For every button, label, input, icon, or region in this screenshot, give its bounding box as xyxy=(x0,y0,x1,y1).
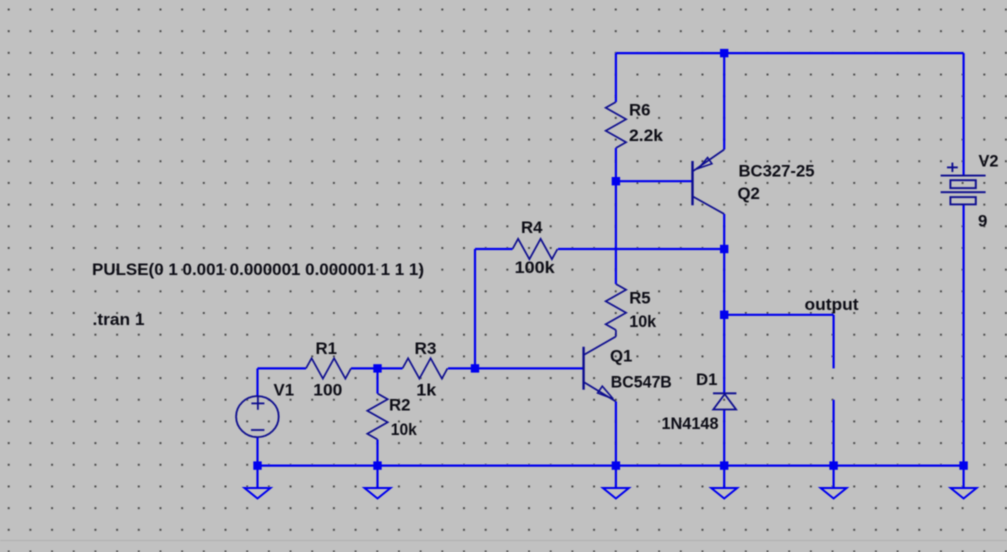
transistor Q2 (PNP BC327-25) xyxy=(693,150,725,215)
svg-text:R2: R2 xyxy=(389,396,410,415)
voltage source V1 xyxy=(236,396,279,437)
junction GND output xyxy=(829,461,837,469)
ground (D1) xyxy=(711,488,737,499)
wire V1 bottom lead xyxy=(256,437,258,466)
resistor R5 xyxy=(606,284,626,330)
wire bottom rail xyxy=(258,465,964,467)
svg-text:100k: 100k xyxy=(515,258,556,277)
svg-text:PULSE(0 1 0.001 0.000001 0.000: PULSE(0 1 0.001 0.000001 0.000001 1 1 1) xyxy=(92,260,424,279)
svg-text:2.2k: 2.2k xyxy=(629,126,664,145)
svg-text:1N4148: 1N4148 xyxy=(662,414,719,433)
wire Q2 emitter vertical xyxy=(723,53,725,149)
wire R4 left vertical xyxy=(474,249,476,368)
svg-text:R6: R6 xyxy=(629,101,650,120)
node top rail / Q2 emitter xyxy=(720,49,728,57)
svg-text:10k: 10k xyxy=(629,312,657,331)
wire top rail xyxy=(616,52,964,54)
resistor R1 xyxy=(306,358,351,378)
node R3/R4/Q1-base xyxy=(471,364,479,372)
wire ground stub x=963.6 xyxy=(962,466,964,488)
svg-text:R5: R5 xyxy=(629,289,650,308)
wire R4 left lead xyxy=(475,248,513,250)
resistor R4 xyxy=(513,239,558,259)
junction GND D1 xyxy=(720,461,728,469)
wire R3 to node xyxy=(448,367,475,369)
svg-text:R4: R4 xyxy=(521,218,543,237)
battery V2 xyxy=(941,163,986,205)
wire ground stub x=833.6 xyxy=(832,466,834,488)
wire V2 top drop xyxy=(962,53,964,176)
ground (Q1) xyxy=(603,488,629,499)
wire R4 right lead xyxy=(558,248,724,250)
svg-text:9: 9 xyxy=(978,212,987,231)
svg-text:V1: V1 xyxy=(274,381,295,400)
svg-text:output: output xyxy=(805,295,859,314)
wire output lower vertical xyxy=(832,400,834,466)
transistor Q1 (NPN BC547B) xyxy=(584,337,616,402)
junction GND Q1 xyxy=(612,461,620,469)
svg-text:Q2: Q2 xyxy=(738,184,760,203)
svg-text:R1: R1 xyxy=(316,339,337,358)
junction GND R2 xyxy=(373,461,381,469)
svg-text:BC327-25: BC327-25 xyxy=(739,162,815,181)
wire ground stub x=377.5 xyxy=(376,466,378,488)
wire Q1 emitter vertical xyxy=(615,402,617,466)
node output branch xyxy=(720,311,728,319)
svg-text:BC547B: BC547B xyxy=(611,373,672,392)
ground (V1) xyxy=(245,488,271,499)
ground (V2) xyxy=(951,488,977,499)
wire V1 to R1 xyxy=(258,367,307,369)
node R1/R2/R3 xyxy=(373,364,381,372)
svg-text:D1: D1 xyxy=(696,370,717,389)
svg-text:V2: V2 xyxy=(979,152,999,171)
wire R6 node to R5 xyxy=(615,181,617,284)
wire Q2 collector vertical xyxy=(723,214,725,393)
diode D1 (1N4148) xyxy=(713,393,736,409)
wire ground stub x=724.2 xyxy=(723,466,725,488)
wire output horizontal xyxy=(724,314,833,316)
node R4 / Q2 collector xyxy=(720,245,728,253)
wire node to Q1 base xyxy=(475,367,584,369)
svg-text:10k: 10k xyxy=(391,420,418,439)
ground (output) xyxy=(821,488,847,499)
svg-text:R3: R3 xyxy=(415,339,437,358)
wire R2 top lead xyxy=(376,368,378,393)
wire R6 bottom lead xyxy=(615,148,617,181)
wire V2 bottom drop xyxy=(962,204,964,465)
resistor R3 xyxy=(403,358,448,378)
wire D1 bottom lead xyxy=(723,410,725,466)
wire R2 bottom lead xyxy=(376,440,378,466)
wire output upper vertical xyxy=(832,315,834,369)
resistor R6 xyxy=(606,102,626,148)
wire R6 top lead xyxy=(615,53,617,102)
wire ground stub x=257.5 xyxy=(256,466,258,488)
svg-text:Q1: Q1 xyxy=(610,347,632,366)
junction GND V2 xyxy=(959,461,967,469)
wire Q2 base xyxy=(616,180,693,182)
svg-text:1k: 1k xyxy=(416,381,437,400)
ground (R2) xyxy=(365,488,391,499)
svg-text:.tran 1: .tran 1 xyxy=(93,310,145,329)
wire ground stub x=615.9 xyxy=(615,466,617,488)
wire V1 top lead xyxy=(256,368,258,396)
svg-text:100: 100 xyxy=(313,381,342,400)
resistor R2 xyxy=(367,394,387,440)
node R6/R5/Q2-base xyxy=(612,177,620,185)
junction GND V1 xyxy=(253,461,261,469)
wire R1 to R2 node xyxy=(351,367,403,369)
